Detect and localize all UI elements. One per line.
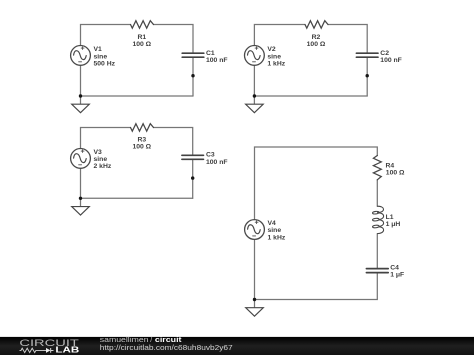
wire R3 right to C3 top bbox=[154, 128, 193, 156]
wire R2 right to C2 top bbox=[328, 25, 367, 54]
wire R1 right to C1 top bbox=[154, 25, 194, 54]
capacitor C4 bbox=[366, 269, 388, 273]
svg-text:LAB: LAB bbox=[55, 345, 79, 355]
wire V3 top to R3 left bbox=[81, 128, 131, 149]
wire circuit2 bottom rail bbox=[254, 95, 367, 97]
wire C3 bottom down right rail bbox=[192, 159, 194, 198]
footer bar bbox=[0, 337, 474, 355]
wire R4 bottom to L1 top bbox=[376, 180, 378, 206]
voltage source V4 bbox=[245, 220, 265, 240]
wire V2 bottom to ground bbox=[253, 65, 255, 104]
wire circuit3 bottom rail bbox=[81, 197, 193, 199]
svg-text:http://circuitlab.com/c68uh8uv: http://circuitlab.com/c68uh8uvb2y67 bbox=[100, 343, 233, 352]
ground circuit3 bbox=[72, 207, 90, 216]
wire V2 top to R2 left bbox=[254, 25, 305, 46]
wire circuit1 bottom rail bbox=[81, 95, 194, 97]
capacitor C3 bbox=[182, 155, 204, 159]
node circuit1 right rail bbox=[191, 74, 194, 77]
wire V4 top to R4 top bbox=[255, 147, 378, 220]
resistor R4 bbox=[373, 156, 381, 180]
node circuit1 bottom left bbox=[79, 94, 82, 97]
wire V1 bottom to ground bbox=[80, 65, 82, 104]
ground circuit2 bbox=[246, 104, 264, 113]
node circuit2 right rail bbox=[366, 74, 369, 77]
ground circuit1 bbox=[72, 104, 90, 113]
wire V3 bottom to ground bbox=[80, 168, 82, 206]
ground circuit4 bbox=[246, 308, 264, 317]
node circuit3 bottom left bbox=[79, 197, 82, 200]
wire C2 bottom down right rail bbox=[366, 57, 368, 96]
inductor L1 bbox=[372, 206, 383, 233]
wire C4 bottom to circuit4 bottom rail bbox=[255, 273, 378, 300]
resistor R1 bbox=[131, 21, 154, 29]
wire V1 top to R1 left bbox=[81, 25, 131, 46]
logo diode symbol bbox=[46, 348, 50, 353]
voltage source V3 bbox=[71, 149, 91, 169]
wire C1 bottom down right rail bbox=[192, 57, 194, 96]
node circuit2 bottom left bbox=[253, 94, 256, 97]
node circuit3 right rail bbox=[191, 176, 194, 179]
resistor R3 bbox=[131, 124, 154, 132]
wire V4 bottom to ground bbox=[254, 239, 256, 307]
capacitor C2 bbox=[356, 53, 378, 57]
wire L1 bottom to C4 top bbox=[376, 234, 378, 269]
logo resistor symbol bbox=[20, 348, 47, 352]
voltage source V1 bbox=[71, 46, 91, 66]
node circuit4 bottom left bbox=[253, 298, 256, 301]
capacitor C1 bbox=[182, 53, 204, 57]
resistor R2 bbox=[305, 21, 328, 29]
voltage source V2 bbox=[245, 46, 265, 66]
